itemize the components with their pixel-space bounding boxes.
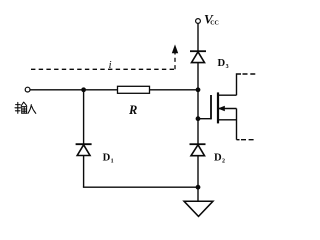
current path i (dashed) (31, 53, 175, 70)
wire resistor to node A (150, 89, 199, 91)
label D2 (214, 153, 225, 165)
svg-text:CC: CC (210, 21, 219, 27)
node gate junction (196, 116, 201, 121)
svg-text:1: 1 (111, 158, 114, 164)
MOSFET body arrow (218, 106, 225, 112)
wire source down and dashed out (237, 139, 255, 141)
wire VCC rail top (197, 23, 199, 51)
wire gate tap (198, 118, 211, 120)
svg-text:i: i (109, 60, 112, 71)
node A junction (196, 87, 201, 92)
transistor MOSFET (211, 92, 237, 139)
ground (184, 187, 213, 216)
label D1 (103, 153, 114, 165)
svg-text:2: 2 (222, 158, 225, 164)
node B junction (81, 87, 86, 92)
terminal input (25, 87, 30, 92)
diode D2 (190, 144, 206, 156)
wire rail D2 to bottom node (197, 156, 199, 188)
wire drain up and dashed out (237, 74, 257, 95)
wire bottom (83, 186, 198, 188)
svg-text:D: D (218, 58, 226, 69)
label VCC (204, 12, 219, 27)
svg-text:D: D (214, 153, 222, 164)
label input (输入) drawn as paths (15, 102, 36, 113)
wire rail node A to gate node (197, 90, 199, 119)
current arrowhead (172, 44, 178, 53)
wire rail gate node to D2 (197, 119, 199, 145)
wire D1 branch lower (83, 156, 85, 188)
svg-text:R: R (128, 103, 137, 117)
wire rail D3 to node A (197, 63, 199, 90)
terminal VCC (196, 19, 201, 24)
wire D1 branch upper (83, 90, 85, 144)
svg-text:3: 3 (226, 64, 229, 70)
node bottom junction (196, 185, 201, 190)
diode D3 (190, 51, 206, 62)
label D3 (218, 58, 229, 70)
resistor R (118, 86, 150, 93)
diode D1 (76, 144, 92, 155)
svg-text:D: D (103, 153, 111, 164)
wire input to node B (30, 89, 118, 91)
